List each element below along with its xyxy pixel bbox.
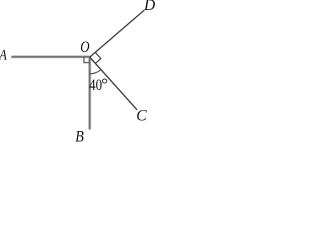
ray OA halo (11, 55, 90, 58)
svg-text:C: C (136, 108, 147, 125)
svg-text:°: ° (101, 75, 108, 94)
angle arc BOC (90, 70, 101, 74)
svg-text:O: O (80, 39, 90, 56)
ray OD (diagonal wire up-right to D) (90, 10, 145, 57)
svg-text:A: A (0, 47, 7, 63)
svg-text:D: D (143, 0, 155, 14)
right angle mark AOB (84, 57, 90, 63)
ray OB halo (88, 57, 91, 129)
svg-text:40: 40 (89, 77, 102, 94)
ray OB (vertical wire from vertex O down to B) (89, 57, 91, 130)
svg-text:B: B (75, 129, 84, 142)
ray OC (diagonal wire down-right to C) (90, 57, 138, 110)
ray OA (horizontal wire from A to vertex O) (11, 56, 90, 58)
right angle mark DOC (95, 52, 101, 63)
